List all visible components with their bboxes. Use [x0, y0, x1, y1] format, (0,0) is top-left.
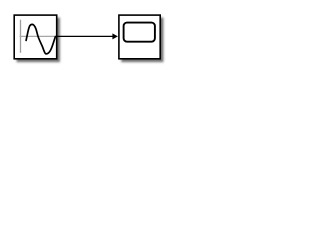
scope block U2 shadow [121, 18, 163, 63]
sine icon horizontal axis [20, 35, 56, 37]
wire from sine block to scope [58, 35, 114, 37]
sine wave source block U1 body [14, 15, 57, 59]
arrowhead into scope input port [112, 33, 118, 39]
scope block U2 body [119, 15, 160, 59]
sine wave source block U1 shadow [17, 18, 60, 63]
sine icon vertical axis [20, 20, 22, 53]
sine icon waveform [26, 24, 55, 54]
scope screen icon [124, 23, 155, 42]
